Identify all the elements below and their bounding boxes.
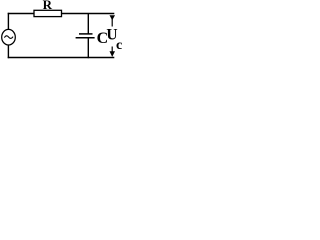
wire left upper vertical [7, 13, 9, 30]
svg-text:c: c [116, 38, 122, 53]
wire left lower vertical [7, 45, 9, 58]
voltage arrow U_c upper line [111, 16, 113, 27]
svg-text:R: R [43, 0, 53, 12]
wire capacitor branch lower vertical [87, 38, 89, 58]
capacitor C1 upper plate [79, 33, 93, 35]
AC source V1 circle [2, 29, 16, 45]
capacitor C1 lower plate [76, 37, 95, 39]
AC source V1 sine symbol [4, 36, 13, 39]
voltage arrow U_c upper head [110, 15, 116, 20]
wire top-left segment [8, 13, 34, 15]
wire top-right segment [62, 13, 115, 15]
voltage arrow U_c lower head [110, 51, 116, 57]
wire bottom segment [8, 57, 115, 59]
wire capacitor branch upper vertical [87, 14, 89, 35]
resistor R1 box [34, 10, 62, 16]
voltage arrow U_c lower line [111, 47, 113, 53]
